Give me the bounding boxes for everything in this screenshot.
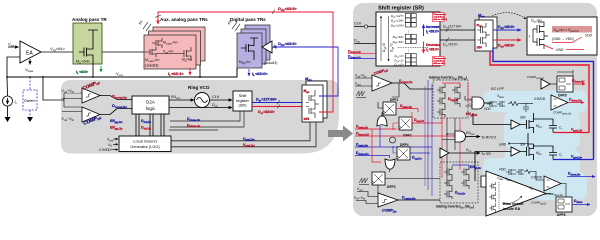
wire mid gnd node [527,133,529,147]
thick blue wire Mdo to right bus [493,48,594,160]
wire capless to ground dashed [29,110,31,117]
svg-text:VDD: VDD [484,107,491,111]
wire purple bus [424,86,426,186]
svg-text:VDD: VDD [499,168,506,172]
wire green drain arrow [100,66,102,72]
DFF5 [557,70,573,92]
svg-text:⋮: ⋮ [407,49,410,53]
wire D2A Dup to SR [169,107,232,109]
svg-text:To SR: To SR [481,152,491,156]
svg-text:DFF5: DFF5 [558,94,567,98]
comparator COMP_UP [82,88,100,103]
detail box Ddo cell [527,17,597,55]
wire Mdo red out up to aux TRs [158,12,333,112]
svg-text:Dcomp,Up: Dcomp,Up [112,94,127,100]
D2A logic block [132,96,169,114]
red vertical feed [372,129,381,162]
light blue highlight comp done dn [533,172,587,200]
blue wire left in 1 [355,146,432,148]
light blue highlight switch cap upper [504,110,580,150]
transistor pair inside Mdo left [306,90,319,118]
wire comp to dff6 [561,184,566,198]
wire blue bus b [431,84,433,196]
DFF4 [397,147,410,160]
wire Vcl [113,143,118,145]
svg-text:0.9VDD: 0.9VDD [531,176,543,180]
wire stub lower [169,129,218,131]
blue wire top GIdn [452,165,469,169]
wire red arrow IL aux [189,68,191,75]
svg-text:0.9VDD: 0.9VDD [99,148,111,152]
svg-text:logic: logic [146,106,156,111]
transistor Mp<k> [181,47,191,61]
comparator COMP_Dn [378,193,398,207]
svg-text:1: 1 [529,35,531,39]
svg-text:(SR): (SR) [239,103,248,108]
Mdo right front box [475,20,493,51]
wire Vlow [113,138,118,140]
wire SR out top to Mdo right [440,29,475,31]
label IL<63:0> blue [248,69,250,76]
transistor M_ud switch [520,113,534,133]
analog pass TR block (green) [73,23,102,64]
wire Ddo blue out arrow [493,29,521,31]
junction rail dots [6,76,8,78]
light blue highlight comp UD region [533,90,587,113]
svg-text:0.9VDD: 0.9VDD [534,97,546,101]
RC LPF transistors [487,101,505,107]
AND gate mid to RVCO [455,131,466,142]
wire SR to Mdo blue Dsr<127:64> [252,102,302,104]
wire red bus b [459,118,461,170]
transistor Mdig<k> [241,38,258,60]
SR row Dsr<125> [391,23,416,28]
wire VCO CLK to SR [210,99,233,101]
wire rail to current source [6,77,9,96]
wire RC to comp [521,103,533,105]
SR row Dsr<2> [394,54,416,60]
transistor stack GIdn right [461,166,469,189]
light blue highlight switch cap lower [504,148,580,186]
svg-text:x64: x64 [477,46,483,50]
transistor Mn,aux<k> [144,47,156,57]
label Vref-Vth [61,116,80,122]
current source IL [3,96,13,106]
bus slash 64 near digital [232,22,240,31]
OR gate up [377,116,387,126]
thick red wire Mdo to right bus [490,51,589,133]
SR row Dsr<63> [393,39,417,45]
wire Mdo blue out up to digital TRs [273,47,338,96]
svg-text:CLK: CLK [354,22,362,26]
wire OR down to DFF3 [378,169,390,193]
capacitor Cr lower [549,148,557,160]
row3 resistor [524,170,532,174]
wire COMP_DN output to D2A [100,109,132,115]
transistor stack GIdn left [444,166,452,199]
svg-text:GND: GND [499,142,507,146]
wire Vbias arrow [29,59,31,65]
buffer sw lower [511,147,520,156]
wire Ddo red out arrow [493,39,521,41]
wire AND mid inputs [442,134,455,140]
cap RC [523,104,529,113]
svg-text:Dcomp,Dn: Dcomp,Dn [112,103,127,109]
bias triangle internals [489,182,522,212]
comparator COMP_DN [82,107,100,122]
wire buf to dff5 [550,83,557,85]
OR gate down [385,159,395,169]
label Vref+Vth [61,88,80,94]
wire rail to capless dashed [29,77,31,90]
wire Ddone,Up [348,52,376,54]
svg-text:DFF3: DFF3 [387,185,396,189]
blue arrow Ddone,Dn out [567,176,595,178]
wire OR up out [381,112,383,117]
svg-text:inside EA: inside EA [503,207,521,211]
wire aux drain to rail [199,65,201,77]
AND gate bottom [481,176,492,187]
svg-text:To RVCO: To RVCO [481,136,496,140]
wire comp UD out [392,83,433,89]
comparator COMP done,Dn [544,176,561,191]
comparator COMP done,Ud [551,95,568,110]
wire DFF2 clk mesh [393,123,399,129]
right digital gray panel [353,3,597,216]
wire Ddone,Dn [348,58,376,60]
light blue highlight RC LPF region [483,91,546,112]
arrow Dup=1 vertical [388,16,390,61]
wire DFF3 out [385,178,440,180]
wire Vgnd,Ud red node [553,132,589,134]
inverter buffer of digital TR [262,41,272,53]
wire DFF2 red out [412,122,442,124]
svg-text:DFF2: DFF2 [403,134,412,138]
svg-text:DFF6: DFF6 [557,213,566,217]
wire red bus a [441,118,443,178]
wire to buffer lower [475,152,511,182]
transistor stack GIup right [452,84,460,107]
comparator COMP_UD [372,75,392,91]
transistor Mp<64> [79,30,98,64]
DFF2 [399,117,412,130]
wire comp Dn out [398,199,440,201]
svg-text:Increase: Increase [426,25,440,29]
svg-text:Capless: Capless [24,99,36,103]
wire 0.9VDD [111,149,118,151]
svg-text:(1≤k≤63): (1≤k≤63) [264,61,277,65]
bus slash 64 near aux [143,22,151,31]
Mdo right back box [479,17,497,48]
svg-text:Aux. analog pass TRs: Aux. analog pass TRs [160,17,208,22]
wire SR to Mdo red Dsr<63:0> [252,106,302,108]
svg-text:(GND → VDD): (GND → VDD) [552,37,574,41]
wire black bus a [446,118,448,186]
wire node to cap lower [534,146,554,148]
svg-text:x64: x64 [304,117,310,121]
SR row Dsr<126> [391,18,416,24]
shift register SR block left [233,91,252,111]
Mdo block left front box [302,85,323,122]
wire COMP_UP output to D2A [100,96,132,100]
red wire top GIup [442,83,460,87]
transistor pair in detail box [533,22,548,49]
blue wire left in 2 [355,156,390,159]
blue vertical feed [379,126,381,147]
wire Vout sense to comparators [43,77,64,100]
wire Vgnd,Up LGG to Mdo [171,122,316,147]
decrease arrow red [423,42,425,54]
transistor M_dn switch [520,144,534,160]
wire Dup [354,43,376,45]
highlight Ddo = Vgnd [552,26,592,33]
wire Vgnd,Dn blue node [553,159,594,161]
svg-text:<63> to <0>): <63> to <0>) [433,62,445,65]
capacitor Cr upper [549,121,557,133]
ground under capless [27,117,33,122]
wire Ddone,Dn to SR [170,111,240,121]
wire DFF4 clk mesh [393,147,397,153]
SR row Dsr<0> [394,62,416,67]
DFF1 [383,102,396,115]
transistor pair inside Mdo right [477,23,490,47]
wire input top comp UD [355,77,372,79]
svg-text:D2A: D2A [146,100,156,105]
wire Ddone,Up to SR [170,111,244,127]
wire Vref into EA [8,46,19,48]
DFF3 [372,172,385,185]
bias circuit triangle [486,171,546,216]
DFF6 [556,197,572,212]
thermo note box top [433,13,445,22]
svg-text:Ring VCO: Ring VCO [188,85,210,90]
svg-text:Bias circuit: Bias circuit [503,202,524,206]
red wire left in 1 [355,128,397,130]
SR row Dsr<64> [393,34,417,40]
big gray arrow between panels [328,126,353,142]
svg-text:Shift register (SR): Shift register (SR) [378,6,424,12]
op-amp EA U1 [20,41,41,63]
SR row Dsr<1> [394,58,416,63]
wire Vgnd,Dn LGG to Mdo [171,122,310,141]
bus slash on blue wire [272,45,275,50]
resistor RC [508,102,521,106]
wire comp ud out red arrow [568,102,584,104]
increase arrow blue [423,25,425,37]
wire to VDD red [552,37,582,43]
wire Vsg<k> to Mp<k> [156,53,181,55]
svg-text:(1≤k≤63): (1≤k≤63) [145,64,158,68]
wire DFF1 out red [396,109,418,113]
waveform glyph lower [359,178,369,185]
thermo note box bottom [433,57,445,66]
left analog gray panel [61,80,339,154]
Mdo block left back box [306,81,327,118]
wire red up bus join [412,112,442,123]
transistor stack GIup left [437,84,445,117]
row3 transistors [506,169,524,175]
wire AND top inputs [465,96,472,106]
red wire AND to buses [468,83,472,104]
svg-text:GND: GND [556,48,564,52]
buffer to SR [440,148,449,158]
buffer to DFF5 [541,79,550,89]
buffer sw upper [511,120,520,129]
svg-text:<64> to <127>): <64> to <127>) [433,18,447,21]
ground under current source [5,117,11,122]
gating inverter up dashed box [433,80,468,118]
bus slash on red wire [272,10,275,15]
aux analog pass TRs stack (pink) [144,27,205,69]
capacitor Capless (blue dashed) [23,90,37,110]
wire DFF5 out red arrow [573,83,585,85]
wire node to cap upper [534,119,554,121]
waveform glyph upper [356,91,366,98]
svg-text:VDD: VDD [585,34,593,38]
wire DFF4 blue out [410,152,430,154]
SR dashed divider [398,47,428,49]
wire Vsg to aux TRs [102,51,144,53]
wire drain of Mp to Vout rail [92,64,94,77]
svg-text:DFF1: DFF1 [390,98,399,102]
wire comp out down to DFF1 [378,83,399,108]
svg-text:Digital pass TRs: Digital pass TRs [230,17,266,22]
digital pass TRs stack (purple) [237,25,270,68]
wire DFF6 blue out arrow [572,204,590,206]
svg-text:IL: IL [15,100,18,105]
arrow Dup=0 vertical [380,16,382,61]
svg-text:EA: EA [26,51,33,57]
wire CLK [354,26,376,28]
wire AND top out [484,102,492,104]
wire to buffer upper [473,113,511,125]
gating inverter dn dashed box [440,162,478,203]
bus D2A to LGG verticals [136,114,164,136]
wire row3 to comp [532,172,544,181]
light blue highlight vdd row2 [483,158,547,180]
svg-text:Generator (LGG): Generator (LGG) [130,144,160,149]
wire EA feedback [7,57,20,77]
wire to RVCO [466,136,481,138]
shift register SR main box [376,12,440,66]
SR row Dsr<127> [391,13,416,19]
wire tri apex out [546,193,551,195]
AND gate top [472,97,484,109]
svg-text:Decrease: Decrease [426,43,441,47]
wire to SR [449,152,480,154]
wire comparator input splits [62,93,82,112]
svg-text:Analog pass TR: Analog pass TR [72,17,107,22]
wire current source to ground [7,106,9,117]
svg-text:CLK: CLK [212,95,220,99]
wire SR out bottom to Mdo right [440,39,475,41]
svg-text:⋮: ⋮ [407,29,410,33]
svg-text:DFF4: DFF4 [400,143,409,147]
wire input bot comp UD [355,85,372,87]
bus slash red near aux entry [155,15,161,18]
wire black bus b [454,118,456,150]
wire EA output Vsg [41,51,73,53]
local ground generator LGG block [119,136,171,152]
wire blue bus a [427,80,429,190]
ring VCO oscillator [195,93,210,108]
wire D2A to ring VCO [169,99,194,101]
junction circle node [390,137,396,143]
svg-text:Local Ground: Local Ground [133,139,156,144]
wire AND bottom out [492,181,499,183]
wire to GND red [544,45,584,50]
svg-text:RC LPF: RC LPF [491,87,505,91]
transistor Mp,aux<k> [152,38,162,48]
wire Vout rail [7,68,237,77]
dashed curve to detail box [492,13,526,19]
wire comp Dn in bot [356,201,378,204]
red wire left in 2 [355,135,460,137]
wire comp Dn in top [357,192,378,197]
